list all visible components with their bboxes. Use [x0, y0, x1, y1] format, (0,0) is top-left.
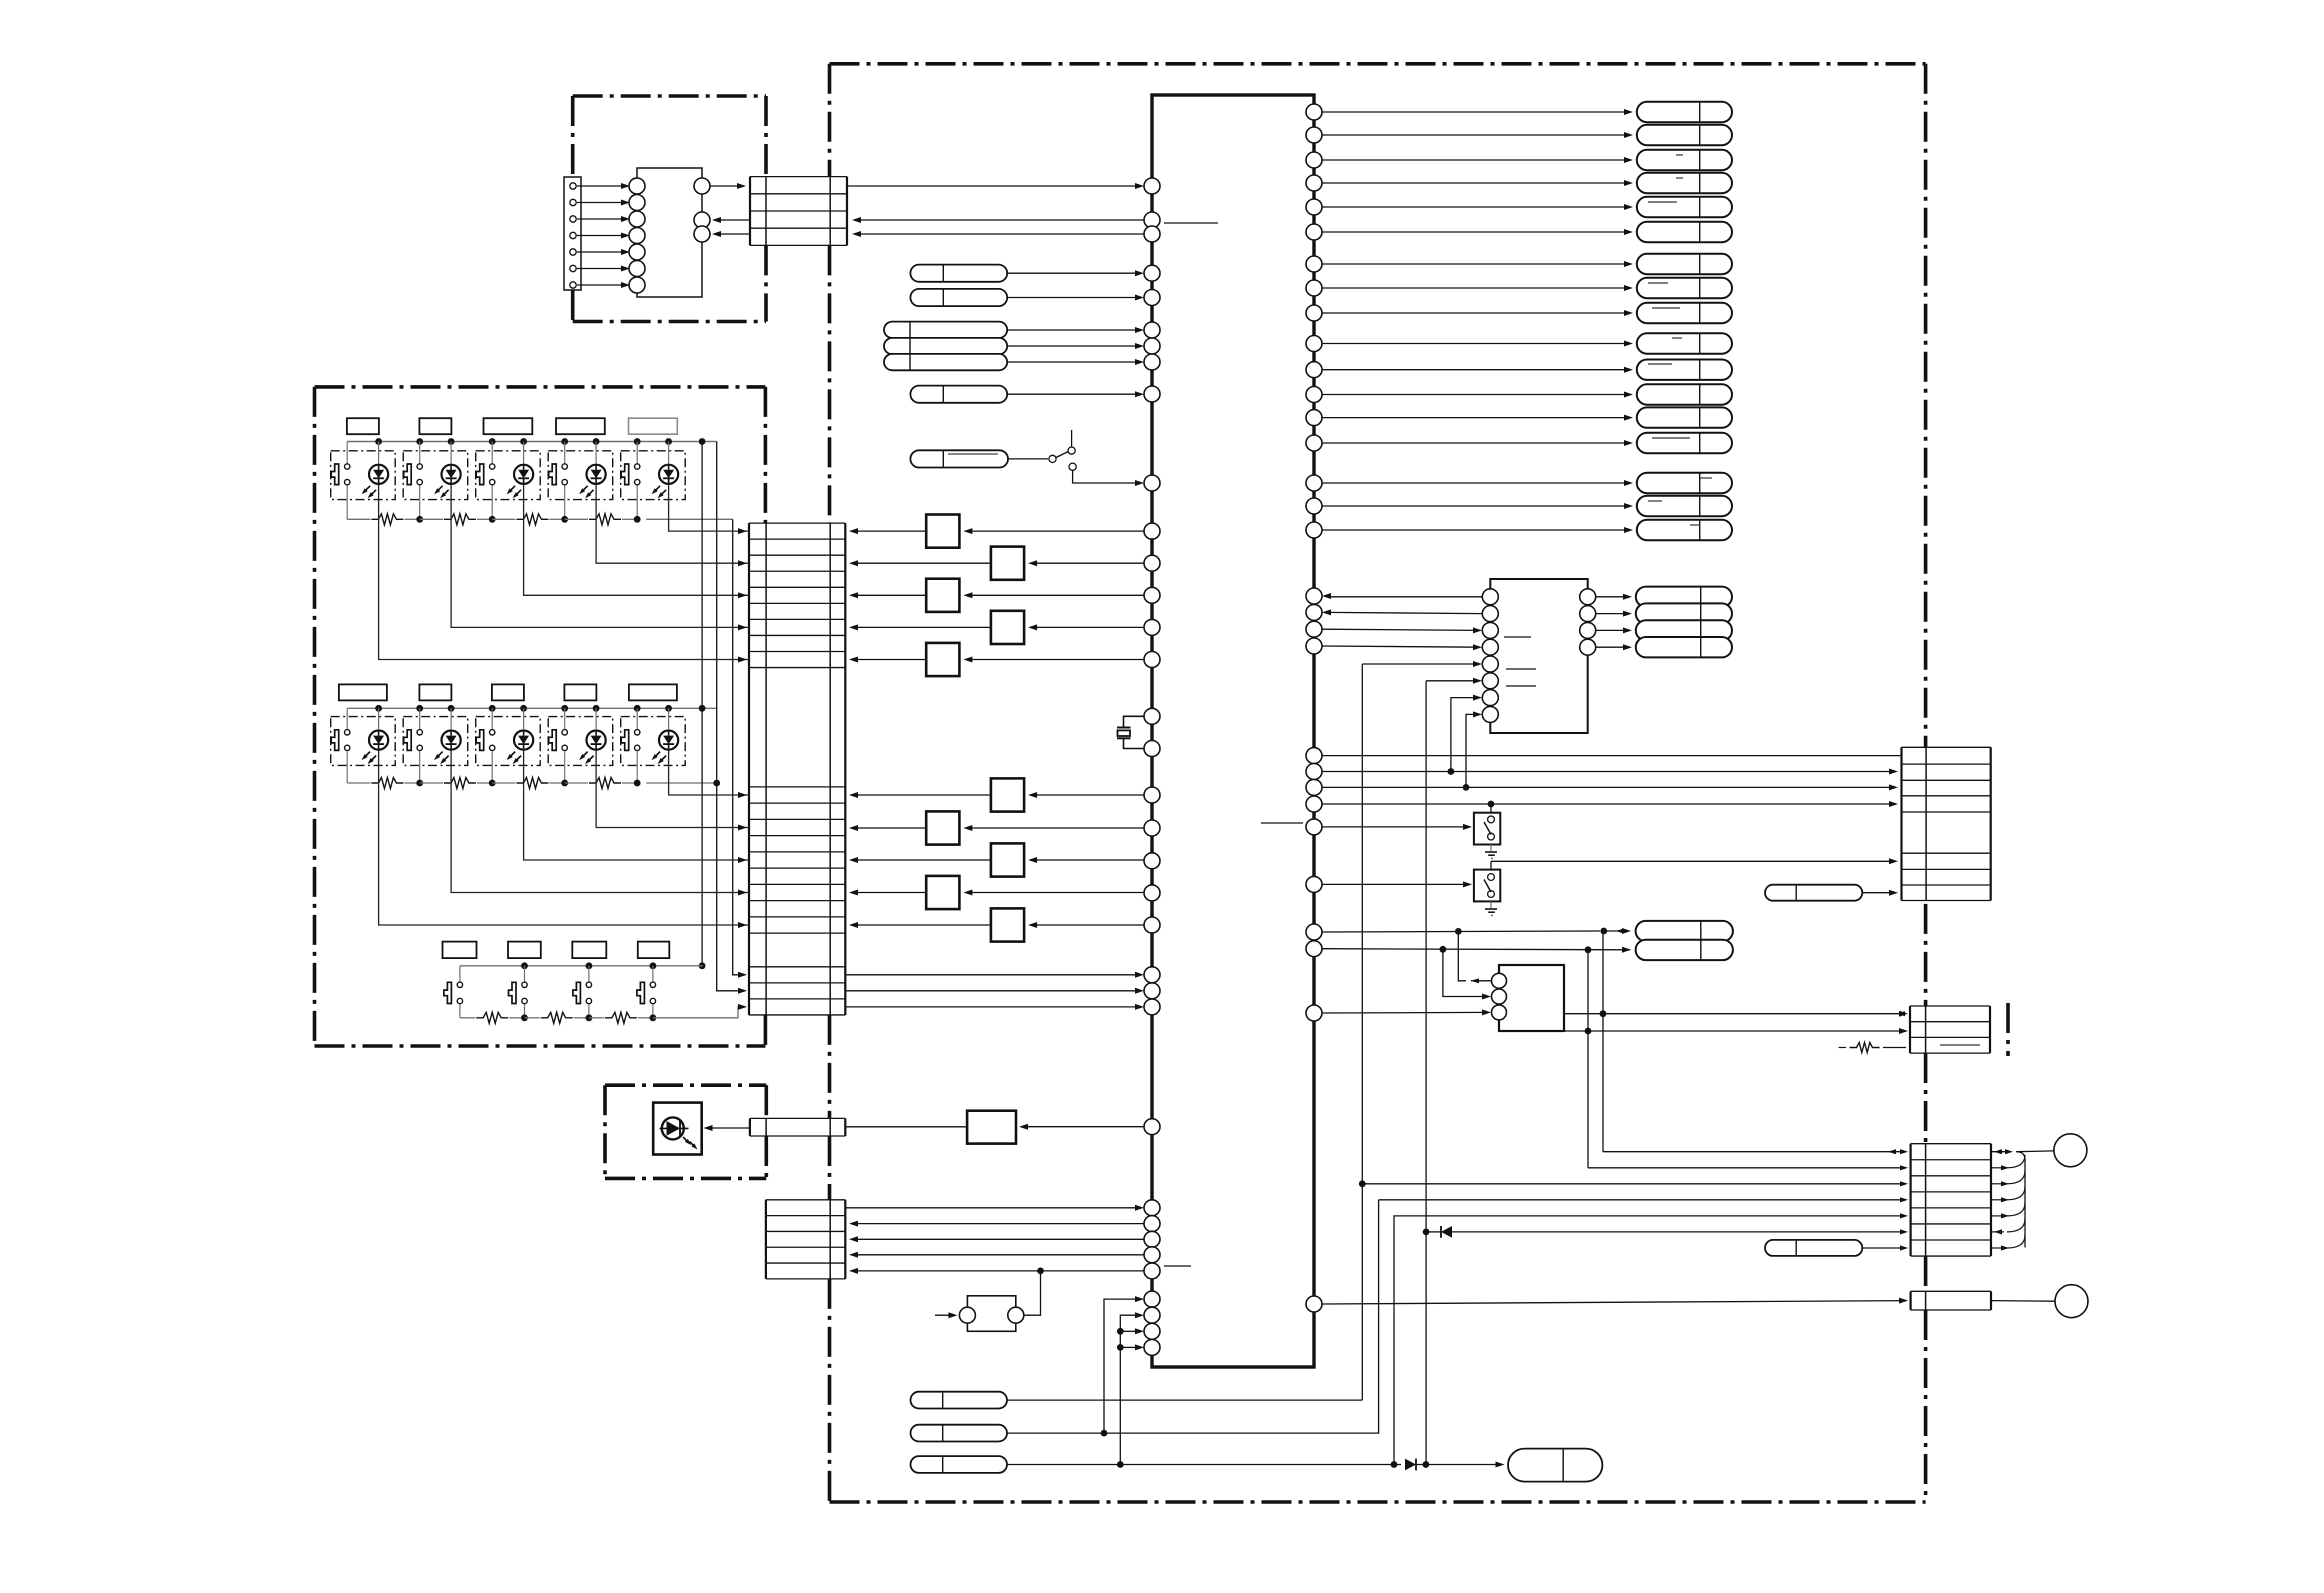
IC left pin — [1144, 999, 1160, 1015]
wire IC to pill — [1322, 134, 1630, 136]
sub-IC left pin — [1482, 690, 1498, 706]
IC left pin — [1144, 1200, 1160, 1216]
IC left pin — [1144, 1339, 1160, 1355]
driver Q6 — [1030, 794, 1144, 796]
wire C2 to IC — [845, 1006, 1140, 1008]
driver Q3 — [965, 594, 1144, 596]
wire IC to C4 — [851, 1238, 1144, 1240]
IC right pin — [1306, 819, 1322, 835]
wire IC to pill — [1322, 263, 1630, 265]
FL filament pill — [1636, 587, 1732, 607]
resistor — [589, 778, 621, 789]
key label — [629, 418, 678, 434]
unit box B (key matrix) border — [315, 385, 766, 389]
driver Q5 — [965, 659, 1144, 661]
wire: row1 resistor rail to bus — [646, 518, 733, 520]
bottom key row top rail — [460, 965, 703, 967]
resistor — [517, 514, 549, 525]
sub-IC left pin — [1482, 656, 1498, 672]
wire IC to pill — [1322, 159, 1630, 161]
IC right pin — [1306, 1005, 1322, 1021]
IC left pin — [1144, 652, 1160, 668]
wire IC to IR sensor — [1022, 1126, 1144, 1128]
wire IC to S602 — [1322, 883, 1469, 885]
pill connector P2 — [910, 289, 1007, 306]
switch S601 — [1490, 804, 1492, 813]
wire sub-IC to pill — [1596, 613, 1628, 615]
IC left pin — [1144, 1216, 1160, 1232]
wire IC to pill — [1322, 442, 1630, 444]
sub-IC bottom edge — [1490, 655, 1587, 733]
bottom key row labels — [443, 942, 477, 959]
wire pill net to IC pin (vert 1104) — [1104, 1299, 1140, 1433]
indicator pill — [1637, 473, 1732, 493]
IC right pin — [1306, 256, 1322, 272]
wire into C5 row4 — [1379, 1199, 1906, 1201]
IC right pin — [1306, 224, 1322, 240]
IC left pin — [1144, 1307, 1160, 1323]
bus vertical v1 — [701, 442, 703, 966]
wire switch to IC — [1073, 470, 1140, 483]
wire motor block to C8 row1 — [1564, 1013, 1906, 1015]
pill PB2 — [911, 1425, 1008, 1442]
IC right pin — [1306, 305, 1322, 321]
indicator pill — [1637, 150, 1732, 170]
vertical net to C5 row2 — [1587, 950, 1589, 1168]
wire into C5 row6 with diode — [1423, 1229, 1430, 1236]
IC right pin — [1306, 410, 1322, 426]
resistor — [541, 1012, 573, 1023]
IC left pin — [1144, 820, 1160, 836]
pill (headphone vol) — [1765, 1240, 1862, 1256]
jack J602 — [2055, 1285, 2088, 1318]
IC right pin — [1306, 588, 1322, 604]
pin — [694, 212, 710, 228]
wire pill to C5 row7 — [1862, 1247, 1906, 1249]
wire LED column to C2 — [379, 484, 749, 660]
bottom resistor rail — [460, 1017, 475, 1019]
resistor — [371, 778, 403, 789]
indicator pill — [1637, 102, 1732, 122]
unit box D (LED) border — [605, 1083, 766, 1087]
resistor — [517, 778, 549, 789]
key cell (switch+LED) — [331, 717, 396, 766]
IC right pin — [1306, 152, 1322, 168]
wire sub-IC to pill — [1596, 646, 1628, 648]
IC left pin — [1144, 265, 1160, 281]
wire IC to sub-IC — [1322, 629, 1478, 630]
IC left pin — [1144, 619, 1160, 635]
wire IC to pill — [1322, 369, 1630, 371]
key cell (switch+LED) — [548, 717, 613, 766]
wire PB2 net — [1007, 1200, 1379, 1433]
IC left pin — [1144, 523, 1160, 539]
IC right pin — [1306, 175, 1322, 191]
key row resistor rail — [347, 782, 370, 784]
sub-IC right pin — [1580, 589, 1596, 605]
sub-IC left pin — [1482, 673, 1498, 689]
curved return wires C5 right — [2024, 1160, 2026, 1247]
label leader — [1164, 222, 1218, 224]
wire sub-IC to IC — [1326, 596, 1482, 598]
key switch — [524, 966, 526, 982]
connector C2 (key matrix ribbon, 21P) — [748, 523, 750, 1015]
wire IC-A pin to C1 row1 — [710, 185, 742, 187]
ground — [1490, 901, 1492, 908]
driver Q4 — [1030, 626, 1144, 628]
key row resistor rail — [347, 518, 370, 520]
key label — [339, 684, 387, 700]
wire to sub-IC pin6 — [1426, 680, 1478, 682]
IC right pin — [1306, 748, 1322, 764]
IC left pin — [1144, 386, 1160, 402]
wire C4 row1 to IC — [845, 1207, 1140, 1209]
wire — [577, 202, 626, 204]
wire into C5 row1 (bidir) — [1603, 1151, 1906, 1153]
wire into C5 row5 — [1394, 1216, 1906, 1465]
wire C3 to LED — [706, 1127, 750, 1129]
IC left pin — [1144, 322, 1160, 338]
wire C2 to IC — [845, 990, 1140, 992]
wire LED column row2 to C2 — [451, 750, 749, 893]
resistor — [605, 1012, 637, 1023]
indicator pill — [1637, 278, 1732, 298]
resistor — [476, 1012, 508, 1023]
key label — [419, 684, 451, 700]
wire IC to pill — [1322, 482, 1630, 484]
wire LED column to C2 — [524, 484, 749, 595]
ceramic resonator X602 — [967, 1296, 1015, 1332]
IC left pin — [1144, 885, 1160, 901]
wire into C5 row2 — [1588, 1167, 1906, 1169]
pill connector P1 — [910, 265, 1007, 282]
key switch — [588, 966, 590, 982]
resistor — [371, 514, 403, 525]
wire bus to sub-IC pin8 — [1466, 714, 1478, 787]
indicator pill — [1637, 384, 1732, 404]
driver Q8 — [1030, 859, 1144, 861]
IC right pin — [1306, 621, 1322, 637]
wire IC to S601 — [1322, 826, 1469, 828]
indicator pill — [1637, 173, 1732, 193]
key label — [556, 418, 605, 434]
resistor — [589, 514, 621, 525]
power switch S901 — [1008, 458, 1048, 460]
connector C5 (headphone board) — [1909, 1144, 1911, 1256]
diode D601 — [1405, 1459, 1416, 1471]
wire C1 to IC pin 1 — [847, 185, 1140, 187]
wire IC to pill — [1322, 394, 1630, 396]
key cell (switch+LED) — [331, 451, 396, 500]
key label — [492, 684, 524, 700]
wire — [577, 284, 626, 286]
label leader inside IC — [1164, 1265, 1191, 1267]
IC right pin — [1306, 362, 1322, 378]
IC right pin — [1306, 1296, 1322, 1312]
key cell (switch+LED) — [476, 717, 541, 766]
key label — [484, 418, 533, 434]
connector C1 (ribbon between box A and main board) — [749, 177, 751, 246]
driver Q7 — [965, 827, 1144, 829]
wire C1 row4 to IC-A — [714, 233, 750, 235]
sub-IC right pin — [1580, 639, 1596, 655]
key label — [419, 418, 451, 434]
wire LED column to C2 — [596, 484, 749, 563]
wire IC to C6 — [1322, 1301, 1906, 1304]
label leader inside IC — [1261, 822, 1303, 824]
indicator pill — [1637, 360, 1732, 380]
IC right pin — [1306, 876, 1322, 892]
IC left pin — [1144, 917, 1160, 933]
wire into C5 row3 — [1362, 1183, 1906, 1185]
FL filament pill — [1636, 603, 1732, 623]
connector C8 (3 rows) — [1909, 1006, 1911, 1053]
wire LED column to C2 — [451, 484, 749, 627]
IC right pin — [1306, 475, 1322, 491]
sub-IC right pin — [1580, 606, 1596, 622]
wire PB1 net — [1007, 1399, 1362, 1401]
IC left pin — [1144, 290, 1160, 306]
connector C3 (single row) — [749, 1118, 751, 1136]
IC right pin — [1306, 764, 1322, 780]
resistor — [444, 514, 476, 525]
indicator pill — [1637, 254, 1732, 274]
resistor — [444, 778, 476, 789]
key label — [347, 418, 379, 434]
IC left pin — [1144, 1247, 1160, 1263]
wire pill to C7 — [1862, 892, 1896, 894]
IC right pin — [1306, 638, 1322, 654]
wire — [577, 218, 626, 220]
wire S602 common to C7 — [1491, 860, 1896, 862]
IC left pin — [1144, 741, 1160, 757]
main system-control IC (large) — [1152, 95, 1314, 1367]
wire IC to pill — [1322, 182, 1630, 184]
connector C6 (line out) — [1909, 1291, 1911, 1310]
driver Q2 — [1030, 562, 1144, 564]
IC right pin — [1306, 498, 1322, 514]
wire pill net to IC pin (vert 1120) — [1120, 1315, 1140, 1464]
IC right pin — [1306, 199, 1322, 215]
IR remote sensor RM601 — [967, 1111, 1016, 1144]
key cell (switch+LED) — [476, 451, 541, 500]
LED D901 box — [653, 1103, 702, 1155]
bus vertical v2 (rail1 end) — [717, 442, 745, 991]
IC left pin — [1144, 1291, 1160, 1307]
sub-IC right pin — [1580, 622, 1596, 638]
indicator pill — [1637, 333, 1732, 353]
wire IC to pill M2 — [1322, 949, 1630, 950]
wire IR sensor to C3 — [845, 1126, 967, 1128]
wire net to motor pin1 — [1458, 931, 1466, 980]
wire LED column to C2 — [669, 484, 749, 531]
wire into resonator — [935, 1314, 955, 1316]
wire IC to pill — [1322, 111, 1630, 113]
IC (display driver) in box A — [637, 168, 702, 297]
IC right pin — [1306, 387, 1322, 403]
IC right pin — [1306, 127, 1322, 143]
pill connector P4 — [910, 386, 1007, 403]
long vertical net A — [1361, 664, 1363, 1400]
wire IC to sub-IC — [1322, 646, 1478, 647]
wire to sub-IC pin5 — [1362, 663, 1478, 665]
IC left pin — [1144, 967, 1160, 983]
pill (power) — [1765, 885, 1862, 901]
wire LED column row2 to C2 — [669, 750, 749, 795]
IC left pin — [1144, 178, 1160, 194]
bus wires IC to connector C7 — [1322, 755, 1902, 757]
IC left pin — [1144, 787, 1160, 803]
wire net to motor pin2 — [1443, 949, 1487, 996]
IC right pin — [1306, 941, 1322, 957]
key switch — [459, 966, 461, 982]
IC left pin — [1144, 212, 1160, 228]
sub-IC IC602 — [1490, 579, 1587, 588]
key label — [564, 684, 596, 700]
wire sub-IC to pill — [1596, 596, 1628, 598]
pill M1 — [1636, 921, 1733, 941]
bus vertical v3 — [733, 519, 745, 975]
IC left pin — [1144, 708, 1160, 724]
key cell (switch+LED) — [621, 717, 686, 766]
key row top rail — [347, 441, 717, 443]
wire: row2 resistor rail to bus — [646, 782, 717, 784]
connector C4 (servo ribbon) — [765, 1200, 767, 1279]
wire IC to C4 — [851, 1223, 1144, 1225]
IC right pin — [1306, 280, 1322, 296]
wire IC to pill — [1322, 312, 1630, 314]
wire sub-IC to pill — [1596, 629, 1628, 631]
IC left pin — [1144, 475, 1160, 491]
pill M2 — [1636, 940, 1733, 960]
headphone jack J601 — [2054, 1134, 2087, 1167]
pill PB1 — [911, 1392, 1008, 1409]
wire PB3 net with diode — [1007, 1464, 1401, 1466]
IC left pin — [1144, 853, 1160, 869]
sub-IC left pin — [1482, 589, 1498, 605]
pill connector stack P3 (3 rows) — [884, 322, 1007, 338]
main board box E border — [830, 62, 1926, 66]
IC right pin — [1306, 522, 1322, 538]
IC left pin — [1144, 983, 1160, 999]
wire LED column row2 to C2 — [524, 750, 749, 860]
key cell (switch+LED) — [548, 451, 613, 500]
sub-IC left pin — [1482, 606, 1498, 622]
key cell (switch+LED) — [403, 717, 468, 766]
wire motor block to C8 row2 — [1564, 1030, 1906, 1032]
motor drive block M601 — [1499, 965, 1564, 1031]
IC left pin — [1144, 338, 1160, 354]
driver Q10 — [1030, 924, 1144, 926]
pill PB3 — [911, 1456, 1008, 1473]
indicator pill — [1637, 520, 1732, 540]
wire IC to pill — [1322, 505, 1630, 507]
IC left pin — [1144, 226, 1160, 242]
wire C2 to IC — [845, 974, 1140, 976]
IC left pin — [1144, 1323, 1160, 1339]
sub-IC left pin — [1482, 639, 1498, 655]
sub-IC left pin — [1482, 622, 1498, 638]
key row top rail — [347, 707, 717, 709]
wire IC to pill — [1322, 206, 1630, 208]
IC right pin — [1306, 604, 1322, 620]
IC right pin — [1306, 796, 1322, 812]
IC left pin — [1144, 1231, 1160, 1247]
indicator pill — [1637, 125, 1732, 145]
driver Q9 — [965, 892, 1144, 894]
switch S602 — [1490, 861, 1492, 873]
pin — [694, 178, 710, 194]
LED D901 (horizontal) — [662, 1117, 684, 1139]
wire resonator to C4 row5 net — [1024, 1271, 1041, 1315]
driver Q1 — [965, 530, 1144, 532]
IC left pin — [1144, 354, 1160, 370]
vertical net to C5 row1 — [1602, 931, 1604, 1152]
wire IC to C1 row4 — [856, 233, 1144, 235]
long vertical net B — [1425, 681, 1427, 1465]
indicator pill — [1637, 496, 1732, 516]
indicator pill — [1637, 222, 1732, 242]
unit box A (top-left) border — [573, 94, 766, 98]
wire — [577, 268, 626, 270]
wire IC to pill — [1322, 417, 1630, 419]
wire IC to pill — [1322, 287, 1630, 289]
indicator pill — [1637, 407, 1732, 427]
wire — [577, 251, 626, 253]
IC left pin — [1144, 1119, 1160, 1135]
pin — [694, 226, 710, 242]
wire C1 row3 to IC-A — [714, 219, 750, 221]
wire bus to sub-IC pin7 — [1451, 698, 1478, 772]
key cell (switch+LED) — [621, 451, 686, 500]
key label — [629, 684, 677, 700]
wire — [577, 185, 626, 187]
wire sub-IC to IC — [1326, 612, 1482, 613]
wire — [577, 235, 626, 237]
wire IC to pill — [1322, 231, 1630, 233]
indicator pill — [1637, 303, 1732, 323]
wire bottom rail into C2 — [653, 1007, 745, 1018]
wire IC to pill M1 — [1322, 931, 1600, 932]
IC right pin — [1306, 924, 1322, 940]
IC right pin — [1306, 336, 1322, 352]
key cell (switch+LED) — [403, 451, 468, 500]
wire IC to pill — [1322, 529, 1630, 531]
FL filament pill — [1636, 620, 1732, 640]
FL filament pill — [1636, 637, 1732, 657]
IC left pin — [1144, 555, 1160, 571]
ground — [1490, 845, 1492, 852]
pill PB4 — [1508, 1449, 1602, 1482]
connector CN (display unit, 7-pin strip) — [564, 177, 581, 290]
crystal X601 — [1124, 716, 1145, 727]
IC left pin — [1144, 587, 1160, 603]
wire IC to pill — [1322, 343, 1630, 345]
IC right pin — [1306, 435, 1322, 451]
IC right pin — [1306, 779, 1322, 795]
IC right pin — [1306, 104, 1322, 120]
connector C7 (mechanism/power) — [1900, 747, 1902, 900]
wire IC to C1 row3 — [856, 219, 1144, 221]
resistor to C8 row3 — [1839, 1047, 1846, 1049]
indicator pill — [1637, 197, 1732, 217]
wire IC to motor pin3 — [1322, 1011, 1487, 1014]
sub-IC left pin — [1482, 706, 1498, 722]
wire LED column row2 to C2 — [596, 750, 749, 828]
wire IC to C4 — [851, 1254, 1144, 1256]
wire IC to C4 — [851, 1270, 1144, 1272]
indicator pill — [1637, 433, 1732, 453]
